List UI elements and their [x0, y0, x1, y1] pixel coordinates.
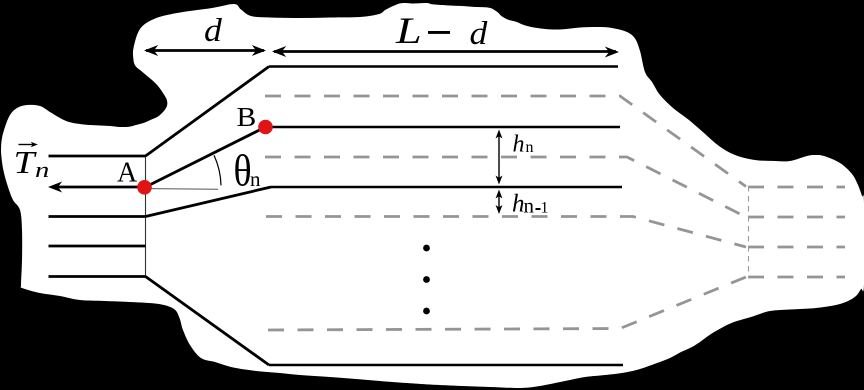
svg-text:θ: θ [234, 146, 252, 195]
svg-text:1: 1 [541, 200, 549, 217]
svg-text:n: n [524, 194, 535, 218]
svg-text:L: L [395, 11, 422, 52]
svg-text:B: B [237, 103, 257, 132]
svg-text:n: n [526, 139, 534, 156]
svg-text:h: h [513, 132, 525, 158]
svg-text:n: n [35, 157, 49, 182]
svg-text:d: d [204, 12, 223, 49]
svg-text:n: n [250, 167, 261, 191]
svg-text:A: A [117, 158, 138, 189]
svg-text:T: T [14, 145, 38, 181]
svg-text:d: d [470, 15, 489, 52]
